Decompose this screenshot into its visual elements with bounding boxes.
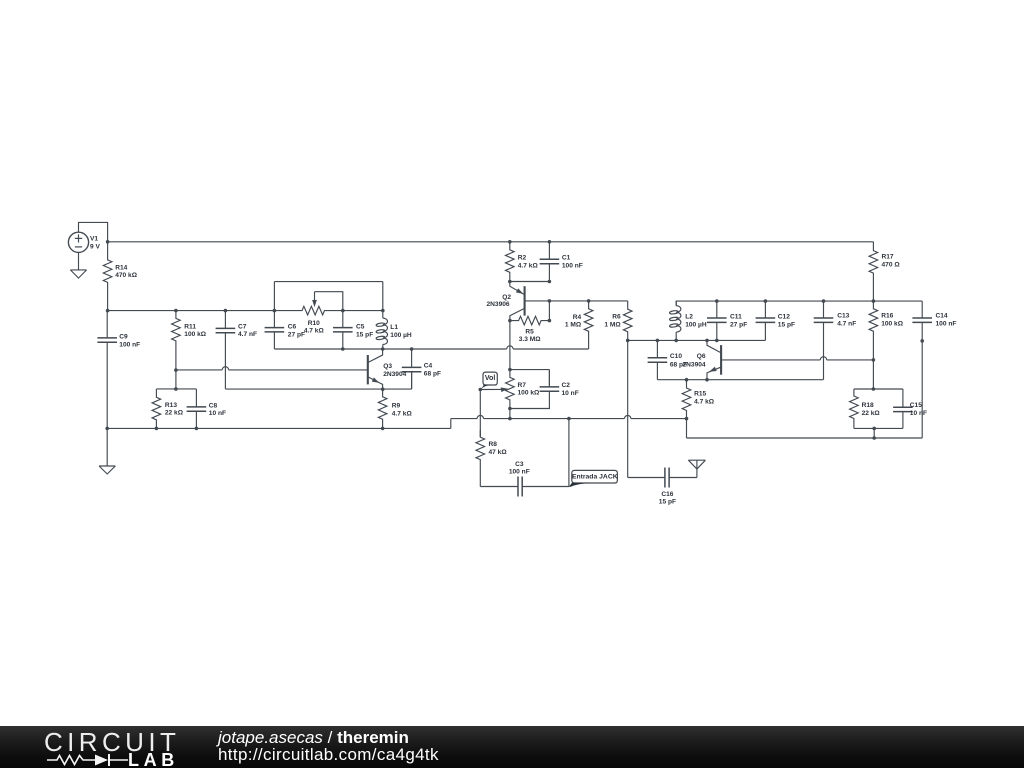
svg-text:4.7 kΩ: 4.7 kΩ: [694, 399, 715, 406]
svg-text:100 kΩ: 100 kΩ: [518, 390, 541, 397]
svg-text:2N3904: 2N3904: [383, 371, 406, 378]
svg-text:R9: R9: [392, 402, 401, 409]
svg-text:C9: C9: [119, 334, 128, 341]
svg-text:R10: R10: [308, 320, 320, 327]
svg-text:C6: C6: [288, 324, 297, 331]
svg-text:10 nF: 10 nF: [910, 410, 927, 417]
svg-text:15 pF: 15 pF: [356, 331, 373, 338]
svg-text:Vol: Vol: [485, 375, 495, 382]
svg-text:C10: C10: [670, 353, 682, 360]
svg-text:C3: C3: [515, 461, 524, 468]
svg-text:22 kΩ: 22 kΩ: [165, 410, 184, 417]
svg-text:4.7 nF: 4.7 nF: [837, 321, 856, 328]
svg-text:Q6: Q6: [697, 353, 706, 360]
svg-text:R15: R15: [694, 391, 706, 398]
svg-text:3.3 MΩ: 3.3 MΩ: [519, 336, 541, 343]
svg-text:R13: R13: [165, 402, 177, 409]
svg-text:15 pF: 15 pF: [659, 499, 676, 506]
svg-text:1 MΩ: 1 MΩ: [565, 321, 582, 328]
svg-text:4.7 kΩ: 4.7 kΩ: [392, 410, 413, 417]
svg-text:R17: R17: [882, 254, 894, 261]
svg-text:R16: R16: [881, 313, 893, 320]
svg-text:100 nF: 100 nF: [936, 321, 957, 328]
svg-text:100 kΩ: 100 kΩ: [184, 331, 207, 338]
svg-text:2N3906: 2N3906: [486, 301, 509, 308]
svg-text:2N3904: 2N3904: [682, 362, 705, 369]
svg-text:C12: C12: [778, 313, 790, 320]
svg-text:R11: R11: [184, 323, 196, 330]
svg-text:C5: C5: [356, 324, 365, 331]
svg-text:R6: R6: [612, 314, 621, 321]
svg-text:C8: C8: [209, 402, 218, 409]
svg-text:10 nF: 10 nF: [562, 390, 579, 397]
svg-text:R14: R14: [115, 264, 127, 271]
svg-text:10 nF: 10 nF: [209, 410, 226, 417]
svg-text:22 kΩ: 22 kΩ: [862, 410, 881, 417]
svg-text:V1: V1: [90, 235, 98, 242]
svg-text:Q2: Q2: [502, 294, 511, 301]
svg-text:100 kΩ: 100 kΩ: [881, 321, 904, 328]
svg-text:C14: C14: [936, 313, 948, 320]
svg-text:470 Ω: 470 Ω: [882, 261, 901, 268]
svg-text:100 µH: 100 µH: [390, 332, 412, 339]
svg-text:L2: L2: [685, 313, 693, 320]
svg-text:47 kΩ: 47 kΩ: [489, 449, 508, 456]
svg-text:27 pF: 27 pF: [288, 331, 305, 338]
svg-text:4.7 kΩ: 4.7 kΩ: [518, 263, 539, 270]
svg-text:4.7 kΩ: 4.7 kΩ: [304, 328, 325, 335]
svg-text:Q3: Q3: [383, 363, 392, 370]
svg-text:R2: R2: [518, 255, 527, 262]
svg-text:C1: C1: [562, 255, 571, 262]
svg-text:4.7 nF: 4.7 nF: [238, 331, 257, 338]
svg-text:27 pF: 27 pF: [730, 321, 747, 328]
svg-text:C4: C4: [424, 362, 433, 369]
svg-text:L1: L1: [390, 324, 398, 331]
svg-text:100 nF: 100 nF: [119, 341, 140, 348]
svg-text:R18: R18: [862, 402, 874, 409]
svg-text:C15: C15: [910, 402, 922, 409]
svg-text:470 kΩ: 470 kΩ: [115, 272, 138, 279]
svg-text:R7: R7: [518, 382, 527, 389]
svg-text:C7: C7: [238, 323, 247, 330]
svg-text:R5: R5: [525, 328, 534, 335]
svg-text:100 nF: 100 nF: [509, 469, 530, 476]
svg-text:1 MΩ: 1 MΩ: [604, 321, 621, 328]
svg-text:9 V: 9 V: [90, 243, 100, 250]
svg-text:C2: C2: [562, 382, 571, 389]
svg-text:C13: C13: [837, 313, 849, 320]
svg-text:Entrada JACK: Entrada JACK: [572, 474, 618, 481]
svg-text:15 pF: 15 pF: [778, 321, 795, 328]
svg-text:100 nF: 100 nF: [562, 263, 583, 270]
svg-text:C16: C16: [661, 491, 673, 498]
svg-text:100 µH: 100 µH: [685, 321, 707, 328]
svg-text:R8: R8: [489, 441, 498, 448]
svg-text:68 pF: 68 pF: [424, 370, 441, 377]
svg-text:C11: C11: [730, 313, 742, 320]
svg-text:R4: R4: [573, 314, 582, 321]
